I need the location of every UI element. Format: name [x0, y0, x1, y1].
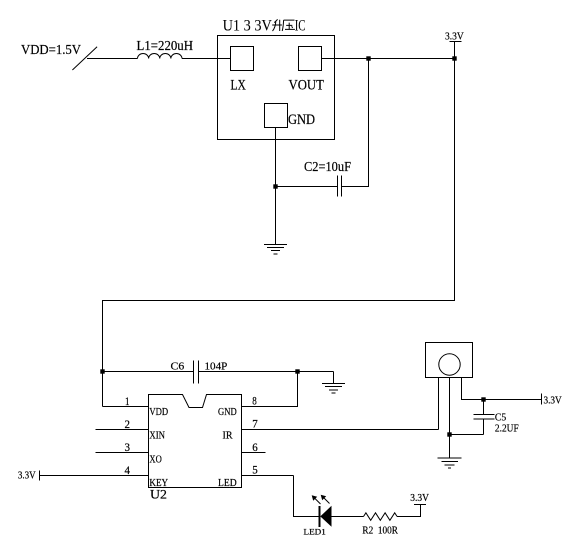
pin 5 of U2	[218, 463, 294, 489]
svg-text:7: 7	[252, 417, 257, 431]
svg-text:8: 8	[252, 394, 256, 408]
svg-text:104P: 104P	[205, 361, 228, 373]
label U1 3.3V升压IC	[223, 17, 306, 34]
wire pin5 to LED	[294, 476, 320, 517]
capacitor C2	[338, 176, 342, 197]
node C5 junction	[481, 397, 485, 401]
node VDD rail / C6 junction	[100, 369, 104, 373]
capacitor C5	[474, 400, 495, 435]
IC U2 box	[149, 395, 242, 488]
svg-text:KEY: KEY	[149, 477, 168, 489]
pin LX of U1	[231, 47, 254, 94]
svg-text:IR: IR	[223, 430, 234, 442]
svg-text:3.3V: 3.3V	[18, 470, 36, 482]
power flag 3.3V at receiver	[542, 394, 562, 407]
wire VDD to L1	[87, 58, 138, 60]
svg-text:4: 4	[125, 463, 131, 477]
wire VOUT to 3.3V rail	[322, 58, 455, 60]
pin 3 of U2	[96, 440, 162, 465]
svg-text:2.2UF: 2.2UF	[495, 423, 519, 435]
LED LED1	[312, 495, 332, 527]
svg-text:5: 5	[252, 463, 257, 477]
svg-text:VDD=1.5V: VDD=1.5V	[21, 42, 81, 57]
node receiver ground junction	[447, 432, 451, 436]
node pin8 branch junction	[295, 369, 299, 373]
svg-text:R2 100R: R2 100R	[362, 526, 398, 537]
svg-text:U1 3 3V: U1 3 3V	[223, 17, 273, 34]
node C2 branch junction	[366, 56, 370, 60]
svg-text:LED1: LED1	[304, 527, 326, 537]
IC U1 box	[218, 36, 335, 140]
capacitor C6	[194, 361, 199, 384]
power flag VDD=1.5V	[21, 42, 97, 70]
wire pin 8 to C6 net	[242, 372, 298, 407]
wire LED to R2	[332, 516, 364, 518]
wire receiver VCC leg to 3.3V	[462, 378, 542, 400]
IR receiver module	[426, 343, 473, 378]
svg-text:3: 3	[125, 440, 131, 454]
svg-text:LX: LX	[231, 78, 247, 94]
wire C5 to receiver ground	[450, 434, 484, 436]
power flag 3.3V at KEY	[18, 470, 40, 482]
svg-text:VDD: VDD	[149, 406, 168, 418]
resistor R2	[364, 513, 398, 521]
svg-text:3.3V: 3.3V	[544, 394, 562, 406]
svg-text:6: 6	[252, 440, 257, 454]
svg-text:2: 2	[125, 417, 131, 431]
svg-text:3.3V: 3.3V	[445, 30, 464, 42]
wire C6 right to ground	[199, 371, 334, 373]
node 3.3V rail junction	[452, 56, 456, 60]
pin 7 of U2	[223, 417, 439, 442]
svg-text:L1=220uH: L1=220uH	[137, 38, 194, 53]
svg-text:1: 1	[125, 394, 130, 408]
pin 8 of U2	[218, 394, 257, 419]
wire C2 branch	[342, 59, 369, 187]
svg-text:C6: C6	[171, 361, 185, 373]
wire receiver GND leg	[449, 378, 451, 458]
pin 6 of U2	[242, 440, 266, 454]
svg-text:XO: XO	[149, 453, 161, 465]
wire receiver OUT leg to IR pin	[438, 378, 440, 430]
wire U1 GND down to ground	[275, 128, 277, 245]
inductor L1	[138, 54, 182, 59]
pin 2 of U2	[96, 417, 166, 442]
wire 3.3V rail down and across to U2	[103, 59, 455, 407]
pin GND of U1	[265, 104, 316, 128]
ground below C2	[264, 245, 287, 255]
wire C2 to GND node	[276, 186, 338, 188]
ground right of C6	[322, 372, 345, 394]
wire L1 to pin LX	[182, 58, 231, 60]
svg-text:XIN: XIN	[149, 430, 165, 442]
svg-text:C2=10uF: C2=10uF	[304, 160, 351, 175]
svg-text:IC: IC	[295, 17, 306, 34]
svg-text:LED: LED	[218, 477, 237, 489]
svg-text:VOUT: VOUT	[289, 78, 325, 94]
pin 4 of U2	[40, 463, 169, 489]
ground below receiver	[438, 458, 462, 468]
power flag 3.3V top	[445, 30, 464, 58]
svg-text:3.3V: 3.3V	[410, 493, 429, 504]
svg-text:GND: GND	[288, 112, 315, 128]
pin VOUT of U1	[289, 47, 325, 94]
wire C6 left	[103, 371, 194, 373]
node C2/GND junction	[273, 184, 277, 188]
svg-text:U2: U2	[150, 487, 167, 501]
power flag 3.3V at R2	[410, 493, 429, 504]
wire R2 to 3.3V	[397, 505, 420, 517]
pin 1 of U2	[103, 394, 169, 418]
svg-text:GND: GND	[218, 406, 237, 418]
